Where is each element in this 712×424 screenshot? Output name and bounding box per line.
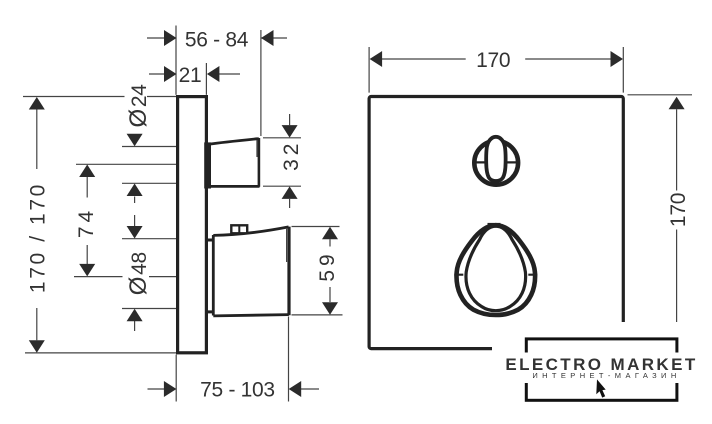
svg-text:170: 170	[667, 193, 690, 227]
svg-text:75 - 103: 75 - 103	[200, 378, 275, 401]
svg-text:74: 74	[75, 207, 98, 238]
svg-text:32: 32	[280, 140, 303, 171]
svg-text:Ø48: Ø48	[125, 252, 152, 295]
svg-text:56 - 84: 56 - 84	[185, 28, 249, 51]
svg-text:21: 21	[179, 64, 202, 87]
svg-text:170 / 170: 170 / 170	[27, 182, 50, 293]
svg-text:Ø24: Ø24	[125, 84, 152, 128]
svg-text:59: 59	[316, 250, 339, 281]
svg-text:170: 170	[476, 49, 510, 72]
svg-text:ИНТЕРНЕТ-МАГАЗИН: ИНТЕРНЕТ-МАГАЗИН	[532, 371, 680, 380]
